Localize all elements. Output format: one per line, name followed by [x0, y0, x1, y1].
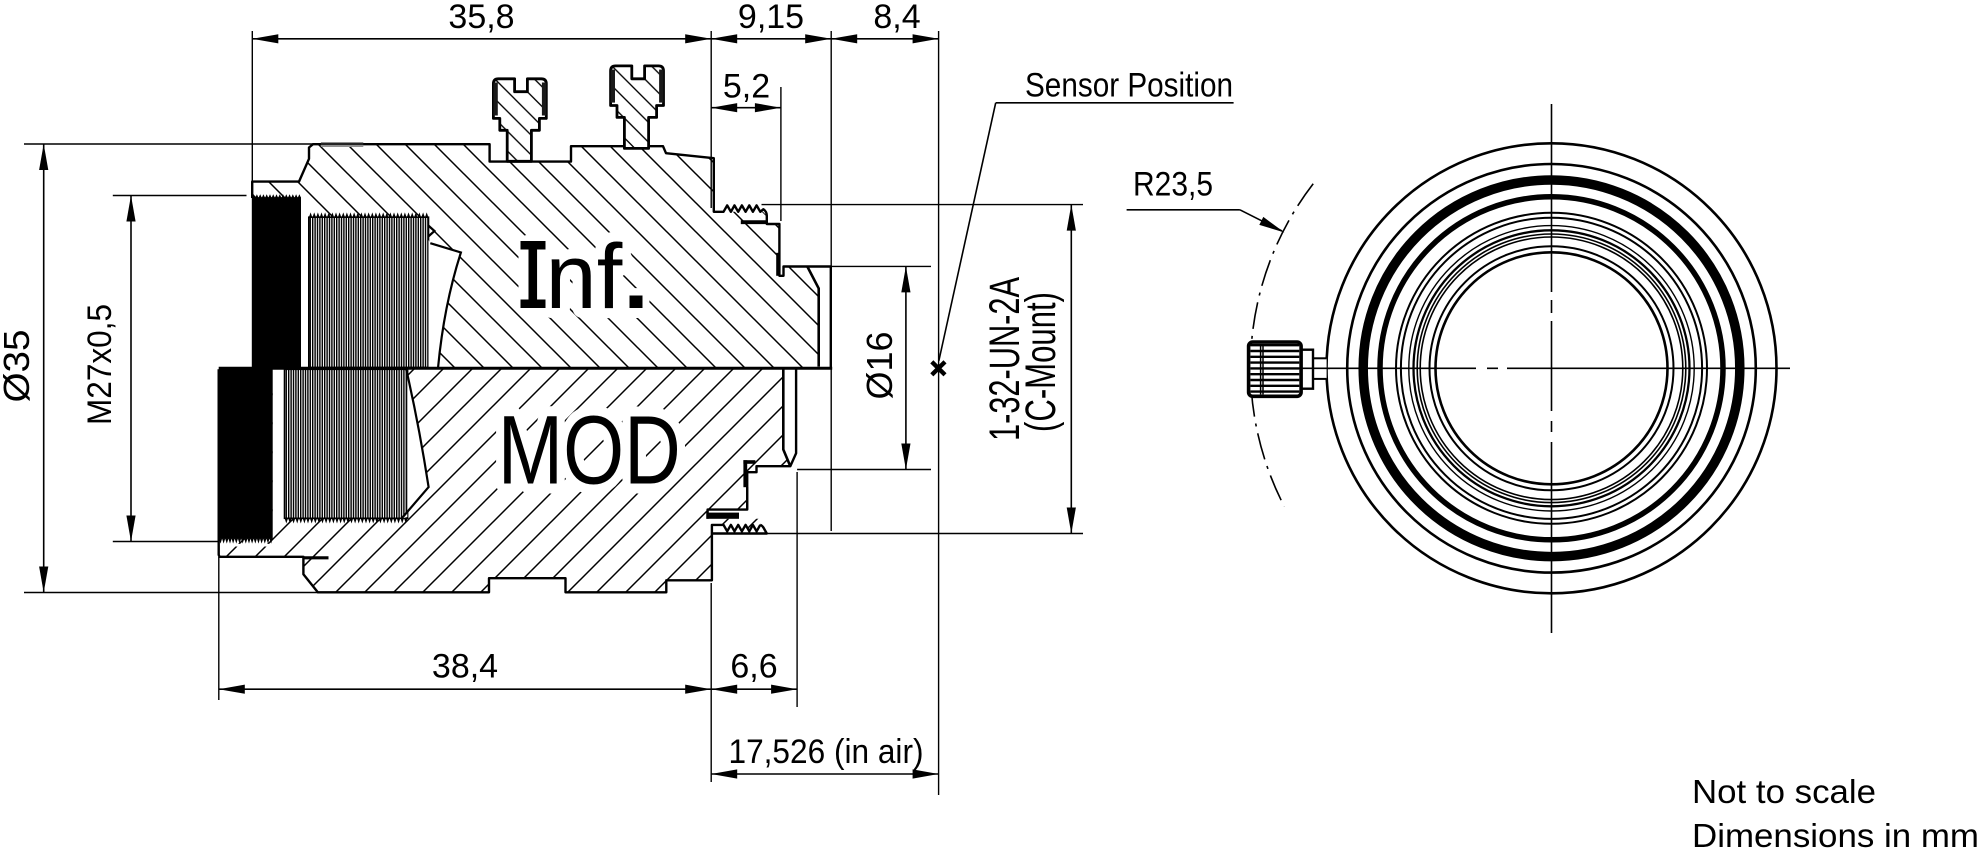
svg-text:M27x0,5: M27x0,5 [81, 304, 119, 425]
svg-text:35,8: 35,8 [448, 0, 514, 36]
lens front view concentric rings [1327, 143, 1777, 593]
lens body cross-section lower half (MOD position) hatched region [219, 369, 791, 592]
svg-text:9,15: 9,15 [738, 0, 804, 36]
lens element edge upper (Inf.) [428, 226, 461, 368]
step bar bottom left [303, 556, 328, 559]
M27 thread barrel lower (black) [219, 369, 273, 539]
body outline lower half [219, 369, 796, 592]
dimension 38,4 [219, 688, 711, 690]
horizontal centerline over thumbscrew [1263, 367, 1330, 369]
dimension 1-32-UN-2A (C-Mount) [1070, 205, 1072, 534]
dimension 6,6 [711, 688, 797, 690]
extension lines dia35 [24, 143, 490, 145]
thumbscrew front view [1313, 358, 1327, 379]
extension line x=831 (9,15/8,4) [830, 31, 832, 266]
white below C-mount thread teeth lower [712, 525, 767, 536]
clamp washer lower [706, 513, 739, 519]
lens element pocket upper (white) [429, 240, 461, 367]
extension line x=711 (35,8/9,15/5,2/38,4/6,6/17,526) [710, 31, 712, 208]
extension line x=797 (6,6 right) [796, 472, 798, 707]
optical axis line left view [219, 367, 833, 370]
extension line x=252 (35,8 left) [251, 31, 253, 181]
focus thread barrel upper (Inf.) [309, 217, 429, 367]
extension lines dia16 [820, 265, 931, 267]
vertical centerline right view [1551, 104, 1553, 633]
white gap strip upper barrel [301, 196, 309, 368]
dimension 8,4 [831, 38, 938, 40]
extension lines 1-32-UN-2A [762, 204, 1084, 206]
extension line x=218 (38,4 left) [218, 557, 220, 700]
C-mount bore chamfer upper [807, 267, 818, 367]
svg-text:6,6: 6,6 [730, 648, 777, 686]
thread serration lower [285, 518, 408, 524]
white gap strip lower barrel [273, 369, 285, 525]
svg-text:R23,5: R23,5 [1133, 165, 1213, 203]
svg-text:8,4: 8,4 [873, 0, 920, 36]
sensor position X mark [932, 362, 945, 375]
svg-text:Ø16: Ø16 [859, 331, 900, 399]
extension lines M27 [113, 195, 247, 197]
lens body cross-section upper half (Inf. position) hatched region [252, 144, 819, 367]
svg-text:17,526 (in air): 17,526 (in air) [729, 733, 924, 771]
dimension 35,8 [252, 38, 711, 40]
body outline upper half [252, 144, 831, 367]
lens element pocket lower (white) [402, 369, 429, 518]
retaining ring lower [743, 460, 755, 464]
thread serration upper [309, 212, 429, 217]
dimension dia16 [905, 266, 907, 469]
grey pad on top face [321, 142, 363, 147]
C-mount bore line lower [783, 369, 790, 466]
dimension 9,15 [711, 38, 831, 40]
svg-text:MOD: MOD [498, 396, 681, 505]
extension line x=780 (5,2 right) [780, 87, 782, 221]
focus thread barrel lower (MOD) [285, 369, 408, 518]
svg-text:Dimensions in mm: Dimensions in mm [1692, 818, 1979, 855]
R23,5 dash-dot arc [1250, 184, 1313, 507]
M27 thread barrel upper (black) [252, 197, 301, 367]
svg-text:Sensor Position: Sensor Position [1025, 67, 1233, 105]
retaining ring upper [741, 220, 766, 224]
set screw 1 [493, 79, 546, 162]
white groove under lower barrel teeth [221, 544, 272, 547]
lens element edge lower (MOD) [402, 369, 429, 518]
dimension 17,526 (in air) [711, 773, 938, 775]
svg-text:38,4: 38,4 [432, 648, 498, 686]
svg-text:(C-Mount): (C-Mount) [1017, 292, 1065, 432]
set screw 2 [611, 66, 664, 149]
horizontal centerline right view [1284, 367, 1790, 369]
extension line x=938 sensor position [938, 31, 940, 795]
dimension dia35 [43, 144, 45, 593]
dimension 5,2 [711, 107, 781, 109]
svg-text:Not to scale: Not to scale [1692, 774, 1876, 811]
dimension M27x0,5 [130, 196, 132, 542]
svg-text:5,2: 5,2 [723, 68, 770, 106]
svg-text:Ø35: Ø35 [0, 330, 37, 403]
